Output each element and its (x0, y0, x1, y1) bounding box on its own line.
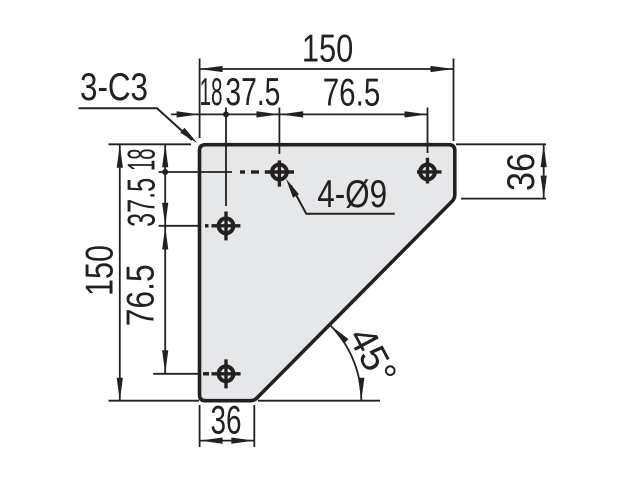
18 outside arrowhead (points right at left plate edge) (177, 111, 200, 117)
hole T centerlines (240, 160, 294, 186)
left 18 top arrowhead (points up) (162, 144, 168, 167)
left 150 bottom arrowhead (117, 378, 123, 401)
ext line row y=225.8 (to left hole) (159, 225, 201, 227)
left 37.5 bottom arrowhead (points down) (162, 203, 168, 226)
svg-text:37.5: 37.5 (225, 71, 280, 114)
leader 4-O9 line (291, 186, 395, 214)
hole L ring (219, 218, 234, 233)
hole R ring (420, 165, 435, 180)
hole T ring (272, 165, 287, 180)
ext line col x=427.5 (427, 108, 429, 154)
ext line col x=226 (225, 108, 227, 207)
hole B centerlines (203, 359, 241, 388)
leader 3-C3 underline (79, 108, 192, 140)
76.5 left arrowhead (280, 111, 303, 117)
ext line row y=373.8 (to bottom hole) (153, 373, 201, 375)
top dimension 150 extension line left (199, 59, 201, 139)
svg-text:4-Ø9: 4-Ø9 (317, 173, 387, 216)
svg-text:18: 18 (200, 71, 223, 114)
ext line col x=279.4 (278, 108, 280, 155)
svg-text:76.5: 76.5 (323, 72, 381, 115)
left 76.5 top arrowhead (points up) (162, 227, 168, 250)
svg-text:150: 150 (79, 245, 122, 296)
left chained dimension line (18/37.5/76.5) (164, 144, 166, 374)
top dimension 150 dimension line (200, 68, 454, 70)
right 36 dimension line (543, 144, 545, 198)
right 36 bottom extension line (461, 198, 546, 200)
45 deg arc (330, 325, 361, 401)
hole L centerlines (205, 212, 240, 241)
hole B ring (219, 366, 234, 381)
right 36 top arrowhead (541, 144, 547, 167)
left dimension 150 top extension line (109, 143, 192, 145)
top 150 left arrowhead (200, 66, 223, 72)
svg-text:36: 36 (211, 399, 242, 443)
left 150 top arrowhead (117, 145, 123, 168)
bottom 36 left arrowhead (200, 438, 223, 444)
second row dimension line (18 / 37.5 / 76.5) (171, 113, 428, 115)
svg-text:150: 150 (302, 28, 354, 71)
svg-text:37.5: 37.5 (121, 178, 164, 227)
top 150 right arrowhead (431, 66, 454, 72)
left dimension 150 bottom extension line (109, 400, 200, 402)
leader 4-O9 arrowhead (286, 179, 299, 198)
bottom 36 dimension line (200, 440, 255, 442)
dot terminator at y=172 (162, 169, 168, 175)
right 36 top extension line (456, 143, 546, 145)
svg-text:76.5: 76.5 (120, 264, 163, 326)
37.5 right arrowhead (256, 111, 279, 117)
right 36 bottom arrowhead (541, 176, 547, 199)
plate body (gusset plate) (200, 145, 455, 401)
svg-text:45°: 45° (340, 320, 405, 391)
leader 3-C3 arrowhead (180, 128, 197, 144)
ext line row y=172 (to top hole) (159, 171, 232, 173)
top dimension 150 extension line right (453, 59, 455, 142)
bottom right extension of base line (for 45 deg) (258, 400, 380, 402)
left 76.5 bottom arrowhead (points down) (162, 350, 168, 373)
bottom 36 right arrowhead (231, 438, 254, 444)
45 deg arc lower arrowhead (358, 378, 364, 401)
left 150 dimension line (119, 145, 121, 401)
45 deg arc upper arrowhead (330, 325, 349, 344)
svg-text:36: 36 (500, 153, 543, 191)
76.5 right arrowhead (405, 111, 428, 117)
svg-text:3-C3: 3-C3 (80, 66, 148, 109)
svg-text:18: 18 (121, 148, 164, 171)
bottom 36 left extension line (199, 405, 201, 447)
dot terminator at 226 (223, 111, 229, 117)
bottom 36 right extension line (253, 405, 255, 447)
hole R centerlines (417, 158, 442, 184)
